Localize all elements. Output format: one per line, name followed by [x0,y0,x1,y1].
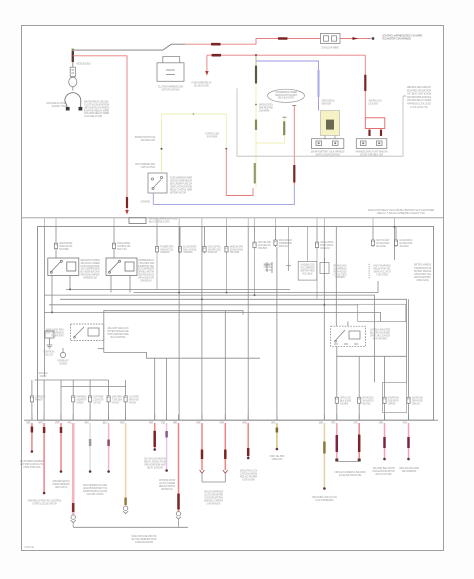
svg-text:IGNITION: IGNITION [403,420,407,424]
svg-text:G501 (GAS): G501 (GAS) [416,278,428,282]
wire W4 ground stub [72,523,74,528]
inline connector arrow [353,37,359,40]
wire W6 color label [107,440,110,447]
svg-text:A/C: A/C [67,420,72,424]
svg-text:CONTROL C501 BLU MOTOR: CONTROL C501 BLU MOTOR [32,502,57,506]
wire W6 end dot [107,470,110,473]
wire battery to battery box (blk) [73,44,185,50]
fuse F1 [54,242,57,251]
wire W6 [108,423,110,471]
wire mid v56 [55,227,57,242]
wire fuse G2 up [72,380,74,394]
wire w2 feed [43,380,45,420]
wire W4 [72,423,75,515]
wire W7 color label [124,498,127,506]
wire red vertical color label [126,197,128,208]
wire W12 stub above row [224,415,226,421]
svg-text:LOCK LOCK 7.5A: LOCK LOCK 7.5A [410,105,428,109]
wire mid v373 [372,227,374,239]
ground bus line [73,526,188,528]
wire red battery to junction [73,56,127,212]
fuse F11 [394,239,397,248]
svg-text:G501 POWER: G501 POWER [230,250,240,254]
svg-text:FUSE DASH MOTOR: FUSE DASH MOTOR [135,540,153,544]
wire W2 [43,423,45,492]
fuse F2 [112,242,115,251]
wire W19 stub above row [408,415,410,421]
wire W9 color label [165,431,168,438]
wire W17 end square [358,459,361,462]
wire W4 color label [72,503,75,512]
fuse F6 [225,245,228,254]
svg-text:CONTROL: CONTROL [353,420,358,424]
bracket W11 stub [201,474,203,482]
wire blue ignition feed [256,55,319,110]
wire W8 [154,423,156,449]
wire red arrowhead into box [125,210,129,215]
wire mid v317 [316,227,318,241]
svg-text:BOX UNDER: BOX UNDER [59,247,69,251]
wire W5 [89,423,91,471]
svg-text:BLK 7.5A: BLK 7.5A [117,247,127,251]
wire W16 stub above row [336,415,338,421]
wire W5 end dot [89,470,92,473]
wire W13 end dot [247,457,250,460]
wire fuse G9 down [384,405,386,420]
svg-text:RELAY 15A DOOR: RELAY 15A DOOR [147,465,163,469]
stub relay to conn1 b [334,136,336,139]
svg-text:POWER: POWER [220,420,224,424]
junction yel right [225,148,227,150]
wire W10 ground stub [178,519,180,527]
wire mid v324 long [323,227,325,420]
junction b5 [323,304,325,306]
svg-text:LOCK G501 CONTROL: LOCK G501 CONTROL [86,492,104,496]
wire W13 [247,423,249,457]
wire fuse G5 down [125,403,127,420]
wire fuse G3 up [89,380,91,394]
svg-text:BLK CLUTCH G501: BLK CLUTCH G501 [376,472,392,476]
wire W5 stub above row [89,415,91,421]
battery arc leg right [80,101,82,107]
wire W6 stub above row [108,415,110,421]
wire v384 down [384,356,386,396]
wire W3 stub above row [60,415,62,421]
svg-text:WHT: WHT [38,420,43,424]
svg-text:DOOR GRN BLK 15A: DOOR GRN BLK 15A [360,152,383,156]
feed stub x226.5 [226,218,228,227]
svg-text:ORN: ORN [173,420,178,424]
svg-text:(GAS) 15A C501 FUSE: (GAS) 15A C501 FUSE [339,473,362,477]
wire relay1 out b [69,275,71,289]
feed stub x56 [55,218,57,227]
wire w8 feed [154,358,156,420]
fuse F10 [371,239,374,248]
wire A color label 2 [278,37,288,40]
wire W18 end dot [383,458,386,461]
wire W9 end dot [165,469,168,472]
wire W12 color label [224,450,227,460]
connector row line [24,419,438,421]
svg-text:DOOR 15A DASH: DOOR 15A DASH [242,478,254,482]
wire W1 stub above row [31,415,33,421]
svg-text:MASTER: MASTER [196,420,200,424]
wire blue color label [317,70,319,97]
svg-text:YEL DASH: YEL DASH [399,244,409,248]
tick on V3 [255,104,257,106]
wire W13 color label [247,448,250,456]
stub relay to conn1 a [324,136,326,139]
wire mid v202 long [201,227,203,420]
svg-text:MASTER 15A: MASTER 15A [320,246,330,250]
svg-text:COMPRESSOR: COMPRESSOR [388,401,396,405]
fuse G4 [107,394,110,403]
wire W10 [178,423,180,512]
svg-text:ORN CLUTCH: ORN CLUTCH [55,485,67,489]
wire W1 color label [31,427,34,433]
wire W16 color label [336,435,339,452]
wire W4 ground symbol [71,515,76,523]
wire yel V3 label lower [254,163,256,184]
wire W3 [60,423,62,471]
svg-text:YEL MASTER 7.5A HARNESS: YEL MASTER 7.5A HARNESS [382,37,411,41]
wire mid v180 [179,227,181,245]
wire W18 color label [383,437,386,448]
relay R2 [106,258,137,275]
feed stub x394.4 [393,218,395,227]
connector box 2 [356,139,387,149]
fuse G10 [407,396,410,405]
wire yel V3 label [255,120,257,131]
ignition box stub to blue [152,193,154,204]
wire W8 color label [153,431,156,447]
battery box [157,57,184,82]
battery stub wire label [72,51,74,62]
feed stub x324.3 [323,218,325,227]
fuse G1 [30,394,33,403]
battery stub green tick [72,49,74,51]
svg-text:10A G501 UNIT: 10A G501 UNIT [141,138,156,142]
glyph switch d [286,263,291,272]
bracket W16-W17 [337,461,359,463]
fuse G9 [383,396,386,405]
wire W2 stub above row [43,415,45,421]
feed stub x201.9 [201,218,203,227]
wire fuse1 to relay1 [55,250,57,258]
svg-text:YEL BATTERY: YEL BATTERY [51,333,64,337]
wire W14 color label [276,428,279,433]
enclosure under-dash box outline [237,88,403,156]
relay C innards [334,330,360,344]
svg-text:BLU: BLU [103,420,108,424]
wire fuse G8 down [358,405,360,420]
wire mid v394 [393,227,395,260]
wire W14 stub above row [276,415,278,421]
feed stub x373 [372,218,374,227]
svg-text:WIRE COMPRESSOR: WIRE COMPRESSOR [402,469,416,473]
svg-text:MODULE BLK: MODULE BLK [77,62,92,66]
wire grn drop from junction [255,55,257,65]
svg-text:15A WIRE: 15A WIRE [259,109,269,113]
ground terminal right [79,107,83,111]
svg-text:UNDER: UNDER [26,420,30,424]
feed stub x275.5 [275,218,277,227]
svg-text:RELAY BLU MOTOR: RELAY BLU MOTOR [278,97,294,100]
wire W15 [323,423,325,488]
wire W2 end dot [43,492,46,495]
svg-text:G501: G501 [161,420,166,424]
wire W15 color label [323,442,326,454]
wire W8 end dot [153,448,156,451]
wire A red hot feed [185,39,321,45]
wire W18 stub above row [384,415,386,421]
left column glyph 1 [45,331,54,348]
left bus b [61,386,126,388]
bus line 3 [44,295,374,382]
svg-text:POWER: POWER [149,420,153,424]
bracket W12 stub [224,474,226,482]
svg-text:UNIT CLUTCH: UNIT CLUTCH [141,165,156,169]
svg-text:MASTER WHT: MASTER WHT [208,250,218,254]
wire yel V4 terminal tick [283,116,287,118]
wire W11 stub above row [201,415,203,421]
svg-text:G501 LOCK: G501 LOCK [45,353,53,357]
wire B red [207,54,365,56]
wire battery top stub [72,50,74,67]
dashed relay B [71,324,104,341]
svg-text:7.5A G501: 7.5A G501 [376,272,389,276]
wire mid v157 [156,227,158,245]
wire v359 down [358,356,360,396]
mid section under-dash fuse relay box [38,227,434,421]
battery arc element [65,93,81,101]
wire fuse G3 down [89,403,91,420]
battery ellipse element [69,77,77,87]
junction v394 [393,226,395,228]
wire mid v204 [204,227,206,245]
wire W9 stub above row [166,415,168,421]
svg-text:G501 20A: G501 20A [265,268,272,272]
wire W14 [276,423,278,448]
wire red x365 to box [364,55,366,118]
enclosure tick to label [403,95,406,97]
wire W3 color label [60,427,63,433]
wire red x294 label [293,165,295,183]
junction b1 [178,292,180,294]
wire W12 end chevron [223,470,228,473]
battery arc leg left [65,101,67,107]
wire B drop stub [206,55,208,72]
wire mid v254 [254,227,256,241]
wire fuse G4 down [108,403,110,420]
wire fuse157 down [156,253,158,289]
svg-text:BATTERY: BATTERY [55,420,59,424]
svg-text:C501 BOX: C501 BOX [258,246,268,250]
red coil box [365,118,385,129]
svg-text:BLU CONTROL: BLU CONTROL [110,335,126,339]
bracket W11-W12 [202,481,225,483]
relay inner element [326,120,334,130]
wire W19 end dot [407,458,410,461]
svg-text:(GAS) PNK BOX: (GAS) PNK BOX [207,501,221,505]
left column glyph 2 [60,348,65,358]
bus line 1 [66,288,290,290]
wire W11 end chevron [200,470,205,473]
glyph cluster e [320,258,329,274]
wire W15 stub above row [323,415,325,421]
svg-text:SWITCH: SWITCH [271,420,275,424]
wire red x294 top tick [292,105,296,107]
wire W9 [166,423,168,470]
wire relay2 out a [110,275,112,292]
fuse F8 [274,239,277,248]
wire fuse317 down [316,249,318,299]
wire W4 stub above row [72,415,74,421]
wire w14 feed [276,247,278,420]
connector box 1 [312,139,344,149]
wire W1 end dot [31,450,34,453]
wire W14 end dot [276,448,279,451]
svg-text:15A: 15A [319,420,324,424]
junction wire B [255,54,257,56]
wire yel V3 [255,84,257,189]
dashed relay C [331,326,366,346]
right box D1 [358,304,406,321]
bus relay C bottom [336,355,406,357]
wire red elbow to yel [226,188,253,196]
wire W5 color label [89,439,92,446]
wire w13 feed [247,227,249,420]
svg-text:LOCK BOX: LOCK BOX [369,102,379,106]
svg-text:SWITCH 20A IGNITION: SWITCH 20A IGNITION [315,152,340,156]
sub box A stepped bottom [98,348,104,350]
wire relay C up stub [347,322,349,327]
fuse G2 [72,394,75,403]
svg-text:DOOR WINDOW: DOOR WINDOW [141,200,151,204]
svg-text:BLU DOOR BLK ORN: BLU DOOR BLK ORN [149,220,169,224]
wire W10 stub above row [178,415,180,421]
wire feed box b [307,227,309,262]
wire v44 extend [43,258,45,376]
fuse G3 [89,394,92,403]
wire blue return [153,186,294,204]
fuse G7 [335,396,338,405]
wire fuse226 down [226,253,228,292]
svg-text:YEL WINDOW: YEL WINDOW [59,362,67,366]
sub box A outline [104,311,243,353]
wire W7 stub above row [125,415,127,421]
stub red conn2 b [380,130,382,137]
bus line 5 [49,304,358,306]
wire fuse G1 up [31,380,33,394]
wire W3 end dot [60,470,63,473]
svg-text:BOX POWER: BOX POWER [207,135,217,139]
svg-text:C501 PNK 10A: C501 PNK 10A [23,465,41,469]
wire A color label [211,43,221,46]
wire relay1 out a [51,275,53,312]
fuse F9 [315,241,318,250]
junction yel left [161,148,163,150]
wire w9 feed [166,358,168,420]
wire W18 [384,423,386,458]
wire W1 [31,423,33,451]
svg-text:HARNESS: HARNESS [335,275,345,279]
svg-text:G501 A/C: G501 A/C [272,457,283,461]
svg-text:A/C BLK: A/C BLK [302,271,313,275]
wire red x365 label [364,75,366,91]
relay box yellow [321,111,340,136]
wire w12 feed [224,311,226,420]
wire W2 color label [43,427,46,433]
wire grn label [255,66,257,84]
svg-text:SWITCH DASH: SWITCH DASH [279,244,288,248]
svg-text:IGNITION: IGNITION [129,400,136,404]
svg-text:BATTERY MOTOR: BATTERY MOTOR [170,191,186,195]
wire W12 [224,423,226,470]
wire W19 [408,423,410,458]
fuse G8 [358,396,361,405]
bus line 6 [44,312,380,321]
svg-text:UNDER UNDER: UNDER UNDER [322,102,331,106]
wire fuse G2 down [72,403,74,420]
svg-text:(GAS) 10A WIRE: (GAS) 10A WIRE [321,46,339,50]
svg-text:ORN SWITCH: ORN SWITCH [112,400,119,404]
feed stub x44.4 [43,218,45,227]
wire W16 [336,423,338,459]
wire v336 down [336,346,338,396]
wire fuse G7 down [336,405,338,420]
wire v408 down [408,299,410,396]
wire B down arrowhead [205,71,209,76]
wire fuse G4 up [108,380,110,394]
svg-text:G501 WIRE: G501 WIRE [340,401,348,405]
svg-text:LOCK COMPRESSOR: LOCK COMPRESSOR [315,498,333,502]
svg-text:COMPRESSOR: COMPRESSOR [160,250,169,254]
wire W17 color label [358,435,361,453]
fuse F5 [203,245,206,254]
svg-text:CONTROL: CONTROL [331,420,336,424]
wire B color label [212,54,222,57]
wire W17 [358,423,360,459]
svg-text:GRN: GRN [379,420,384,424]
wire W11 [201,423,203,470]
wire fuse254 down [254,249,256,295]
bus line 4 [60,299,407,382]
junction b3 [226,292,228,294]
ground terminal left [66,107,70,111]
svg-text:CLUTCH YEL: CLUTCH YEL [24,545,34,549]
glyph bar c [368,264,370,279]
svg-text:HARNESS 20A: HARNESS 20A [83,275,97,279]
svg-text:LOCK RELAY GRN: LOCK RELAY GRN [84,114,102,118]
junction b2 [201,298,203,300]
svg-text:20A RELAY: 20A RELAY [140,278,152,282]
wire W15 end dot [323,487,326,490]
feed stub x254.5 [254,218,256,227]
junction block on divider [129,218,146,224]
wire relay2 out b [129,275,131,292]
fusible link box [70,67,75,76]
junction b7 [69,288,71,290]
wire W16 end square [335,459,338,462]
wire mid v226 [226,227,228,245]
wire W8 stub above row [154,415,156,421]
wire W7 [125,423,127,506]
wire mid v44 [43,227,45,258]
sub box A bottom [104,353,260,359]
svg-text:POWER: POWER [35,398,42,402]
ignition switch box [148,173,167,193]
